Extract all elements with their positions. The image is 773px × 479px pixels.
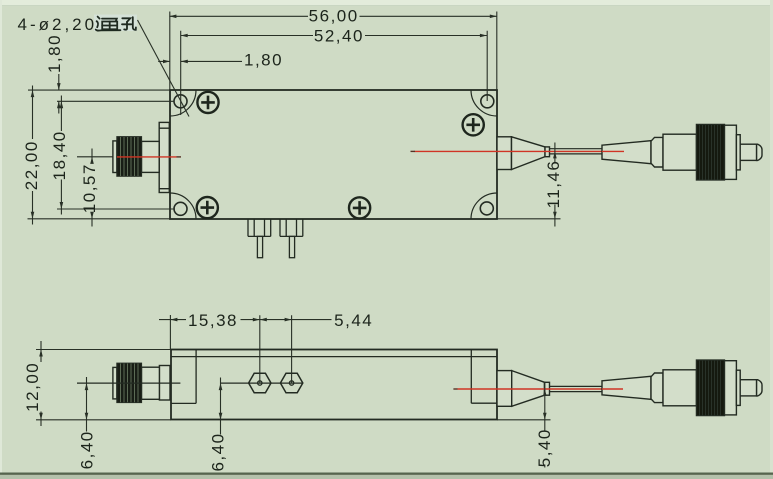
svg-text:6,40: 6,40 xyxy=(78,430,97,469)
svg-text:12,00: 12,00 xyxy=(23,362,42,412)
svg-text:18,40: 18,40 xyxy=(50,130,69,180)
svg-text:52,40: 52,40 xyxy=(314,26,364,45)
svg-text:10,57: 10,57 xyxy=(80,163,99,213)
svg-text:6,40: 6,40 xyxy=(209,432,228,471)
svg-text:4-ø2,20: 4-ø2,20 xyxy=(18,15,98,34)
svg-text:22,00: 22,00 xyxy=(22,140,41,190)
svg-text:11,46: 11,46 xyxy=(544,160,563,209)
svg-text:5,44: 5,44 xyxy=(334,311,373,330)
svg-text:15,38: 15,38 xyxy=(188,311,238,330)
svg-text:1,80: 1,80 xyxy=(45,34,64,73)
svg-text:1,80: 1,80 xyxy=(244,51,283,70)
svg-text:5,40: 5,40 xyxy=(535,428,554,467)
svg-text:56,00: 56,00 xyxy=(309,7,359,26)
